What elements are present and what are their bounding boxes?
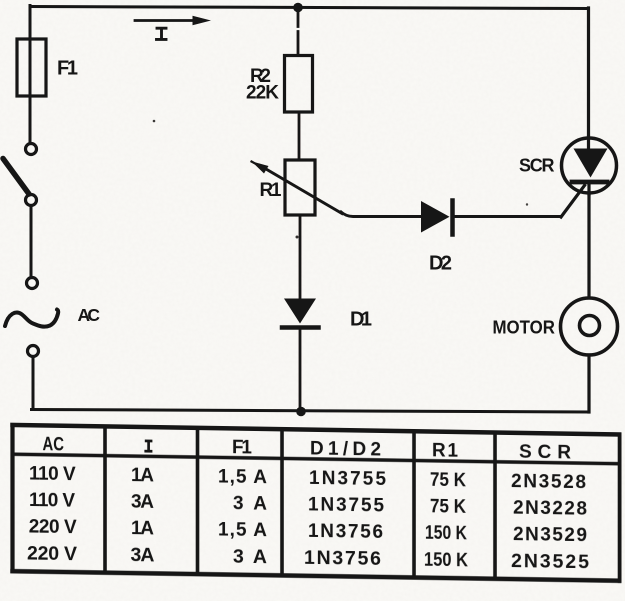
current arrow I: [135, 16, 211, 25]
svg-text:220 V: 220 V: [29, 516, 77, 538]
table column divider 4: [412, 432, 416, 578]
node junction bottom: [296, 407, 306, 417]
svg-text:1A: 1A: [131, 518, 154, 539]
svg-text:75 K: 75 K: [430, 496, 466, 518]
svg-text:3A: 3A: [131, 492, 154, 513]
svg-text:3 A: 3 A: [233, 546, 267, 569]
svg-text:1,5 A: 1,5 A: [218, 466, 267, 488]
svg-text:MOTOR: MOTOR: [493, 317, 556, 338]
diode D2: [421, 201, 453, 235]
wire right rail to SCR: [587, 8, 590, 137]
label I: [157, 28, 167, 39]
svg-text:R1: R1: [260, 180, 282, 201]
table header separator: [12, 454, 620, 464]
svg-text:AC: AC: [78, 305, 101, 325]
wire top horizontal: [30, 7, 588, 9]
fuse F1: [17, 39, 46, 96]
table top border: [10, 425, 621, 435]
svg-text:3 A: 3 A: [233, 493, 267, 515]
wire left rail to fuse: [29, 6, 32, 41]
wire gate bend: [561, 186, 585, 218]
svg-text:R1: R1: [432, 440, 458, 461]
svg-text:D1: D1: [350, 309, 372, 331]
wire D1 to bottom rail: [299, 327, 302, 412]
svg-text:1A: 1A: [131, 465, 154, 486]
wire fuse to switch: [29, 96, 32, 144]
table column divider 2: [196, 428, 200, 574]
svg-text:150 K: 150 K: [425, 523, 467, 545]
table row 2: [29, 490, 587, 520]
table column divider 5: [493, 433, 497, 579]
svg-text:22K: 22K: [246, 83, 279, 104]
svg-text:1,5 A: 1,5 A: [218, 519, 267, 541]
wire motor to bottom rail: [587, 355, 590, 412]
table header row: [43, 434, 572, 463]
wire R1 wiper to D2: [341, 212, 421, 217]
svg-text:AC: AC: [43, 434, 65, 455]
switch S1: [3, 144, 37, 206]
table right border: [618, 432, 622, 583]
svg-text:2N3228: 2N3228: [513, 498, 587, 520]
svg-text:SCR: SCR: [519, 156, 555, 176]
table column divider 3: [280, 429, 284, 575]
svg-text:2N3529: 2N3529: [513, 524, 587, 546]
wire R1 to D1: [299, 215, 302, 299]
diode D1: [282, 299, 319, 328]
table row 4: [27, 542, 589, 573]
SCR U1: [562, 137, 617, 194]
svg-text:SCR: SCR: [519, 442, 571, 464]
svg-text:3A: 3A: [131, 544, 155, 566]
svg-text:150 K: 150 K: [424, 549, 468, 572]
speck: [296, 236, 299, 239]
label R2 22K: [246, 66, 279, 104]
resistor R2: [285, 56, 313, 113]
svg-text:220 V: 220 V: [27, 542, 77, 565]
table row 1: [29, 463, 586, 493]
svg-text:F1: F1: [57, 58, 78, 80]
node junction top: [293, 3, 303, 13]
svg-text:110 V: 110 V: [29, 463, 76, 485]
svg-text:110 V: 110 V: [29, 490, 75, 512]
wire switch to AC source: [30, 206, 33, 277]
table column divider 1: [103, 427, 107, 573]
wire AC to bottom rail: [32, 357, 35, 409]
svg-text:D1/D2: D1/D2: [310, 438, 381, 460]
table row 3: [29, 516, 587, 546]
speck: [526, 203, 528, 205]
potentiometer R1: [252, 160, 343, 215]
speck: [153, 120, 156, 123]
wire R2 to R1: [298, 112, 301, 160]
wire bottom horizontal: [32, 410, 590, 413]
svg-text:F1: F1: [232, 437, 252, 458]
wire D2 to SCR gate: [454, 215, 561, 218]
parts table: [10, 423, 621, 583]
table bottom border: [10, 571, 621, 581]
wire SCR to motor: [587, 193, 590, 297]
motor M1: [561, 298, 618, 355]
svg-text:D2: D2: [429, 253, 452, 275]
table left border: [10, 423, 14, 573]
AC source terminals and sine: [5, 278, 58, 357]
wire node to R2: [297, 8, 300, 56]
svg-text:75 K: 75 K: [430, 470, 466, 492]
